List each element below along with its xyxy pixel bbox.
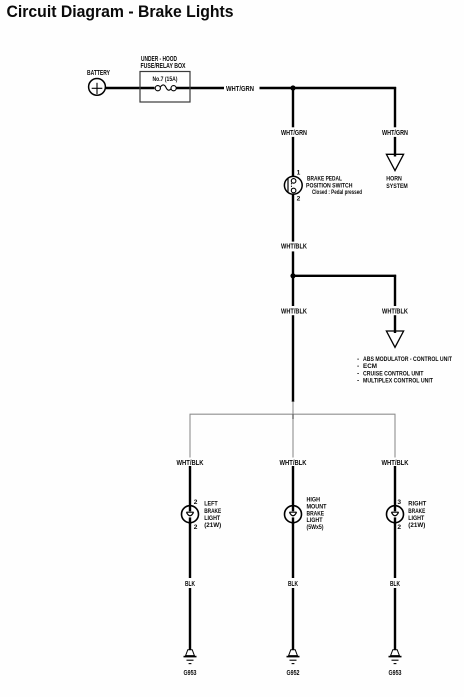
svg-text:2: 2 xyxy=(194,499,198,506)
svg-text:LIGHT: LIGHT xyxy=(204,515,220,522)
svg-text:BLK: BLK xyxy=(390,581,400,588)
svg-text:-: - xyxy=(357,370,359,377)
svg-text:-: - xyxy=(357,356,359,363)
svg-text:FUSE/RELAY BOX: FUSE/RELAY BOX xyxy=(141,63,186,70)
svg-text:WHT/GRN: WHT/GRN xyxy=(226,86,254,93)
svg-text:BLK: BLK xyxy=(185,581,195,588)
svg-text:WHT/BLK: WHT/BLK xyxy=(281,244,307,251)
svg-text:-: - xyxy=(357,363,359,370)
svg-text:WHT/GRN: WHT/GRN xyxy=(382,130,408,137)
svg-text:LEFT: LEFT xyxy=(204,501,218,508)
svg-text:3: 3 xyxy=(397,499,401,506)
svg-text:BRAKE: BRAKE xyxy=(408,508,425,515)
svg-text:HORN: HORN xyxy=(386,176,402,183)
svg-text:ECM: ECM xyxy=(363,363,377,370)
svg-text:No.7 (15A): No.7 (15A) xyxy=(153,76,178,83)
svg-text:ABS MODULATOR - CONTROL UNIT: ABS MODULATOR - CONTROL UNIT xyxy=(363,356,452,363)
svg-text:G953: G953 xyxy=(184,670,197,677)
svg-text:WHT/BLK: WHT/BLK xyxy=(281,308,307,315)
svg-text:WHT/BLK: WHT/BLK xyxy=(382,460,409,467)
svg-text:-: - xyxy=(357,378,359,385)
svg-text:WHT/BLK: WHT/BLK xyxy=(382,308,408,315)
svg-text:LIGHT: LIGHT xyxy=(408,515,424,522)
svg-text:BRAKE: BRAKE xyxy=(204,508,221,515)
svg-text:(21W): (21W) xyxy=(204,522,221,529)
svg-text:(5Wx5): (5Wx5) xyxy=(307,524,324,531)
svg-text:1: 1 xyxy=(297,170,301,177)
svg-text:BLK: BLK xyxy=(288,581,298,588)
svg-text:WHT/GRN: WHT/GRN xyxy=(281,130,307,137)
svg-text:Closed : Pedal pressed: Closed : Pedal pressed xyxy=(312,189,362,196)
svg-text:G953: G953 xyxy=(389,670,402,677)
svg-text:WHT/BLK: WHT/BLK xyxy=(177,460,204,467)
svg-text:MULTIPLEX CONTROL UNIT: MULTIPLEX CONTROL UNIT xyxy=(363,378,433,385)
svg-text:2: 2 xyxy=(297,196,301,203)
svg-text:BRAKE PEDAL: BRAKE PEDAL xyxy=(307,176,342,183)
svg-text:WHT/BLK: WHT/BLK xyxy=(280,460,307,467)
svg-text:2: 2 xyxy=(194,524,198,531)
svg-text:SYSTEM: SYSTEM xyxy=(386,183,408,190)
svg-text:Circuit Diagram - Brake Lights: Circuit Diagram - Brake Lights xyxy=(7,3,234,21)
svg-text:2: 2 xyxy=(397,524,401,531)
svg-text:G952: G952 xyxy=(287,670,300,677)
svg-text:RIGHT: RIGHT xyxy=(408,501,426,508)
svg-text:BATTERY: BATTERY xyxy=(87,70,110,77)
svg-text:CRUISE CONTROL UNIT: CRUISE CONTROL UNIT xyxy=(363,370,424,377)
svg-text:(21W): (21W) xyxy=(408,522,425,529)
